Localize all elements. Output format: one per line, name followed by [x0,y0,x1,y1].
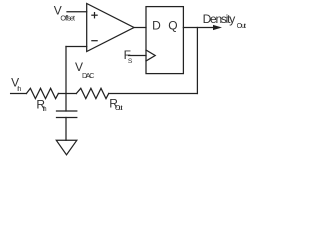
node F_S [124,48,133,65]
svg-text:Out: Out [115,103,123,112]
wire op-amp output to D input [134,27,146,29]
svg-text:Density: Density [203,12,236,26]
label R_In [36,98,46,114]
wire feedback vertical [196,28,198,94]
svg-text:Offset: Offset [60,13,75,22]
capacitor [57,111,77,118]
wire junction segment [58,93,76,95]
resistor R_Out [76,88,108,98]
wire V_In [11,93,27,95]
wire feedback horizontal [109,93,198,95]
D flip-flop U2 [146,7,183,74]
svg-text:Q: Q [168,19,177,33]
clock input chevron [146,50,155,61]
svg-text:Out: Out [237,23,246,30]
wire V_Offset to + input [67,11,87,13]
node Density_Out [203,12,246,30]
svg-text:D: D [152,19,161,33]
wire F_S clock [129,55,147,57]
wire V_DAC vertical [65,47,67,112]
node V_Offset [54,4,75,23]
label R_Out [109,96,122,112]
wire Q output [183,27,214,29]
resistor R_In [26,88,58,98]
svg-text:DAC: DAC [82,71,94,80]
ground [56,140,77,155]
node V_DAC [75,60,94,80]
svg-text:S: S [128,58,133,65]
wire capacitor to ground [65,118,67,141]
node V_In [11,76,21,94]
arrowhead Density_Out [213,25,222,30]
op-amp U1 [87,4,134,52]
svg-text:In: In [43,104,47,113]
svg-text:In: In [17,84,21,93]
wire inverting input [66,46,87,48]
